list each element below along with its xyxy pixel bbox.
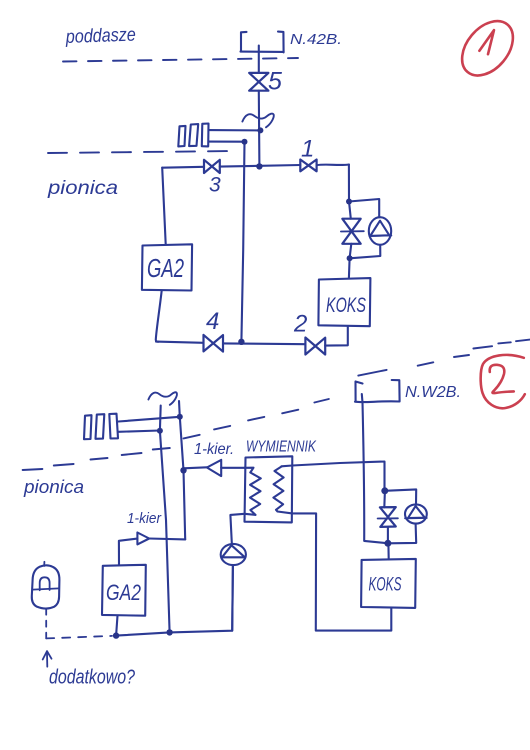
- svg-text:3: 3: [209, 174, 221, 197]
- svg-text:1: 1: [301, 136, 314, 163]
- svg-text:N.W2B.: N.W2B.: [405, 384, 461, 401]
- svg-text:KOKS: KOKS: [326, 294, 366, 317]
- svg-text:5: 5: [268, 68, 282, 96]
- svg-text:poddasze: poddasze: [65, 25, 137, 48]
- svg-text:4: 4: [206, 308, 219, 335]
- svg-text:GA2: GA2: [147, 253, 184, 283]
- svg-text:KOKS: KOKS: [369, 575, 402, 596]
- svg-text:1-kier: 1-kier: [127, 510, 162, 527]
- svg-text:dodatkowo?: dodatkowo?: [49, 667, 136, 689]
- svg-text:pionica: pionica: [47, 178, 118, 199]
- svg-text:pionica: pionica: [23, 477, 84, 497]
- svg-text:1-kier.: 1-kier.: [194, 441, 234, 458]
- svg-text:N.42B.: N.42B.: [290, 31, 342, 48]
- svg-text:WYMIENNIK: WYMIENNIK: [246, 439, 317, 456]
- svg-text:2: 2: [293, 311, 307, 338]
- svg-text:GA2: GA2: [106, 580, 141, 605]
